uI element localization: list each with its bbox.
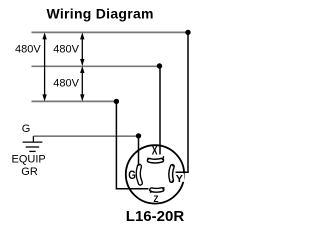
wire L2 drop to X terminal	[159, 66, 161, 155]
svg-text:G: G	[22, 123, 31, 135]
wire L1 drop to Y terminal	[176, 32, 189, 172]
wire ground run	[33, 135, 138, 137]
node junction dot L2	[157, 63, 162, 68]
svg-text:GR: GR	[21, 166, 38, 178]
label Y terminal	[175, 173, 185, 181]
svg-text:480V: 480V	[53, 77, 79, 89]
ground symbol	[23, 136, 43, 151]
node junction dot L3	[114, 99, 119, 104]
svg-text:480V: 480V	[15, 43, 41, 55]
slot Y (right)	[171, 165, 174, 182]
svg-text:480V: 480V	[53, 43, 79, 55]
wire phase bus L3 (bottom)	[32, 100, 117, 102]
svg-text:L16-20R: L16-20R	[126, 208, 185, 225]
slot Z (bottom)	[150, 187, 164, 193]
node junction dot G	[136, 133, 141, 138]
dimension arrow 480V L1-L2	[80, 32, 84, 66]
svg-text:X: X	[152, 146, 158, 158]
wire phase bus L1 (top)	[32, 31, 189, 33]
svg-text:G: G	[128, 169, 136, 182]
slot X (top)	[148, 156, 164, 161]
dimension arrow 480V L2-L3	[80, 66, 84, 101]
svg-text:Y: Y	[176, 174, 183, 185]
node junction dot L1	[185, 30, 190, 35]
svg-text:Z: Z	[154, 193, 159, 204]
receptacle body circle U1	[126, 145, 184, 203]
wire G drop to G terminal	[138, 136, 140, 167]
svg-text:EQUIP: EQUIP	[12, 153, 46, 165]
slot G (left)	[138, 164, 140, 183]
wire phase bus L2 (middle)	[32, 65, 160, 67]
svg-text:Wiring Diagram: Wiring Diagram	[47, 6, 154, 22]
wire L3 drop to Z terminal	[116, 101, 148, 188]
dimension arrow 480V L1-L3	[42, 32, 46, 101]
